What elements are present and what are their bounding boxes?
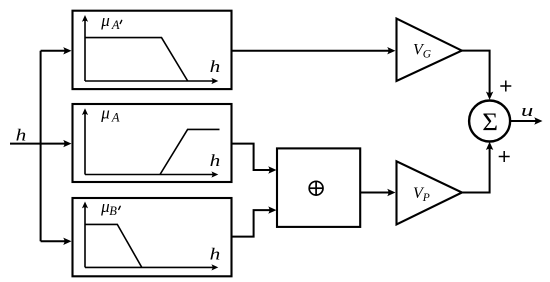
svg-text:h: h xyxy=(210,245,221,264)
svg-text:h: h xyxy=(210,152,221,171)
svg-text:h: h xyxy=(210,58,221,77)
svg-text:Σ: Σ xyxy=(482,107,498,136)
svg-text:u: u xyxy=(521,101,533,120)
svg-text:h: h xyxy=(16,126,27,145)
